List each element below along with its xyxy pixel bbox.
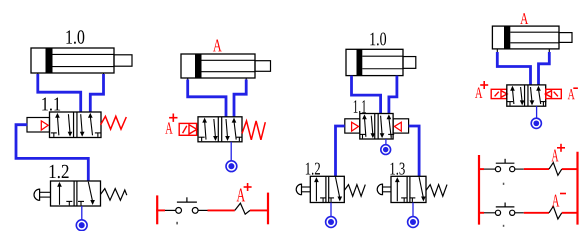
push button S2 residue dot (503, 183, 505, 185)
wire valve-1.2 output to left pilot (336, 126, 345, 176)
compressed air source of valve 1.1 (circuit 3) (381, 145, 391, 155)
left pilot of valve 1.1 (345, 119, 360, 133)
coil label A- (ladder 4) (552, 194, 566, 207)
rung wire left segment (156, 209, 165, 211)
wire cylinder-1.0 right port to valve-1.1 port 2 (90, 74, 103, 113)
rung 1 wire middle segment (524, 168, 549, 170)
return spring of valve (red) (242, 121, 265, 140)
cylinder A (181, 54, 271, 82)
rung 1 wire left segment (478, 168, 484, 170)
wire from push button S2 (515, 168, 524, 170)
return spring of valve 1.2 (circuit 3) (344, 185, 365, 197)
valve 1.2 value label (circuit 3) (306, 163, 320, 175)
wire cylinder-A right port to valve port 2 (234, 80, 246, 117)
valve 1.1 value label (42, 98, 60, 111)
rung 2 wire middle segment (524, 212, 549, 214)
rung wire right segment (250, 209, 268, 211)
supply line of valve 1.2 (81, 206, 83, 220)
push button S3 residue dot (503, 225, 505, 227)
wire cylinder left port to valve port 4 (circuit 4) (497, 52, 530, 85)
compressed air source of valve 1.3 (408, 217, 419, 228)
wire cylinder right port to valve-1.1 port 2 (389, 76, 397, 114)
return spring of valve 1.3 (426, 185, 447, 197)
valve 1.1 value label (circuit 3) (354, 100, 366, 113)
wire valve-1.3 output to right pilot (409, 126, 420, 176)
push button residue dot (176, 222, 178, 225)
wire to push button S3 (484, 212, 495, 214)
cylinder A label (213, 40, 222, 52)
compressed air source of circuit 1 (76, 220, 87, 231)
rung wire middle segment (208, 209, 235, 211)
solenoid coil A+ (zigzag) (235, 203, 250, 214)
wire cylinder-1.0 left port to valve-1.1 port 4 (38, 74, 81, 113)
push button S2 (normally open) (495, 159, 514, 172)
rung 1 wire right segment (562, 168, 578, 170)
push button S3 (normally open) (495, 203, 514, 216)
solenoid coil A- (ladder 4) (549, 206, 562, 219)
push button of valve 1.2 (34, 189, 51, 200)
right power rail (ladder 4) (576, 152, 578, 225)
cylinder 1.0 value label (circuit 3) (370, 33, 386, 46)
cylinder 1.0 value label (66, 30, 84, 44)
coil label A+ (ladder 4) (552, 144, 566, 162)
supply line of valve 1.3 (412, 203, 414, 217)
valve 1.2 (3/2-way button valve, circuit 3) (310, 176, 344, 202)
compressed air source of valve 1.2 (circuit 3) (326, 217, 337, 228)
right power rail (ladder 2) (267, 193, 269, 225)
supply line of circuit-2 valve (230, 142, 232, 161)
pilot actuator of valve 1.1 (27, 118, 50, 133)
wire valve-1.2 output to pilot of valve-1.1 (16, 125, 88, 181)
coil label A+ (237, 183, 252, 201)
supply line of circuit-4 valve (536, 106, 538, 118)
rung 2 wire right segment (562, 212, 578, 214)
wire to push button (165, 209, 176, 211)
push button of valve 1.3 (377, 184, 391, 195)
solenoid actuator (A+) (179, 123, 197, 135)
left power rail (ladder 4) (478, 155, 480, 225)
return spring of valve 1.1 (red) (101, 116, 127, 129)
rung 2 wire left segment (478, 212, 484, 214)
cylinder 1.0 (circuit 3) (346, 49, 416, 79)
wire to push button S2 (484, 168, 495, 170)
valve 1.2 (3/2-way button valve) (51, 181, 101, 206)
solenoid valve A label A+ (165, 114, 177, 134)
wire from push button (198, 209, 207, 211)
push button of valve 1.2 (circuit 3) (296, 184, 310, 195)
compressed air source of circuit 4 (531, 118, 541, 128)
valve 1.1 (4/2-way, pilot/spring) (50, 112, 102, 138)
compressed air source of circuit 2 (226, 161, 237, 172)
return spring of valve 1.2 (101, 189, 127, 201)
left power rail (ladder 2) (156, 195, 158, 224)
valve of circuit 2 (4/2-way solenoid/spring) (198, 117, 242, 142)
cylinder A label (circuit 4) (520, 13, 528, 24)
valve 1.2 value label (50, 165, 69, 179)
valve 1.1 (4/2-way double pilot) (359, 114, 394, 140)
cylinder A (circuit 4) (492, 26, 572, 52)
push button S1 (normally open) (176, 197, 198, 213)
wire cylinder right port to valve port 2 (circuit 4) (539, 52, 550, 85)
cylinder 1.0 (31, 48, 132, 77)
wire from push button S3 (515, 212, 524, 214)
valve of circuit 4 (4/2-way double solenoid) (507, 85, 547, 106)
valve 1.3 value label (390, 163, 404, 175)
valve 1.3 (3/2-way button valve) (391, 176, 426, 202)
right pilot of valve 1.1 (393, 119, 409, 133)
solenoid coil A+ (ladder 4) (549, 163, 562, 176)
wire cylinder left port to valve-1.1 port 4 (352, 76, 381, 114)
supply line of valve 1.1 (circuit 3) (385, 139, 387, 145)
label A+ of left solenoid (475, 81, 488, 98)
label A- of right solenoid (568, 88, 578, 99)
right solenoid actuator A- (545, 89, 561, 98)
supply line of valve 1.2 (circuit 3) (330, 203, 332, 217)
wire cylinder-A left port to valve port 4 (188, 80, 226, 117)
left solenoid actuator A+ (491, 89, 507, 98)
